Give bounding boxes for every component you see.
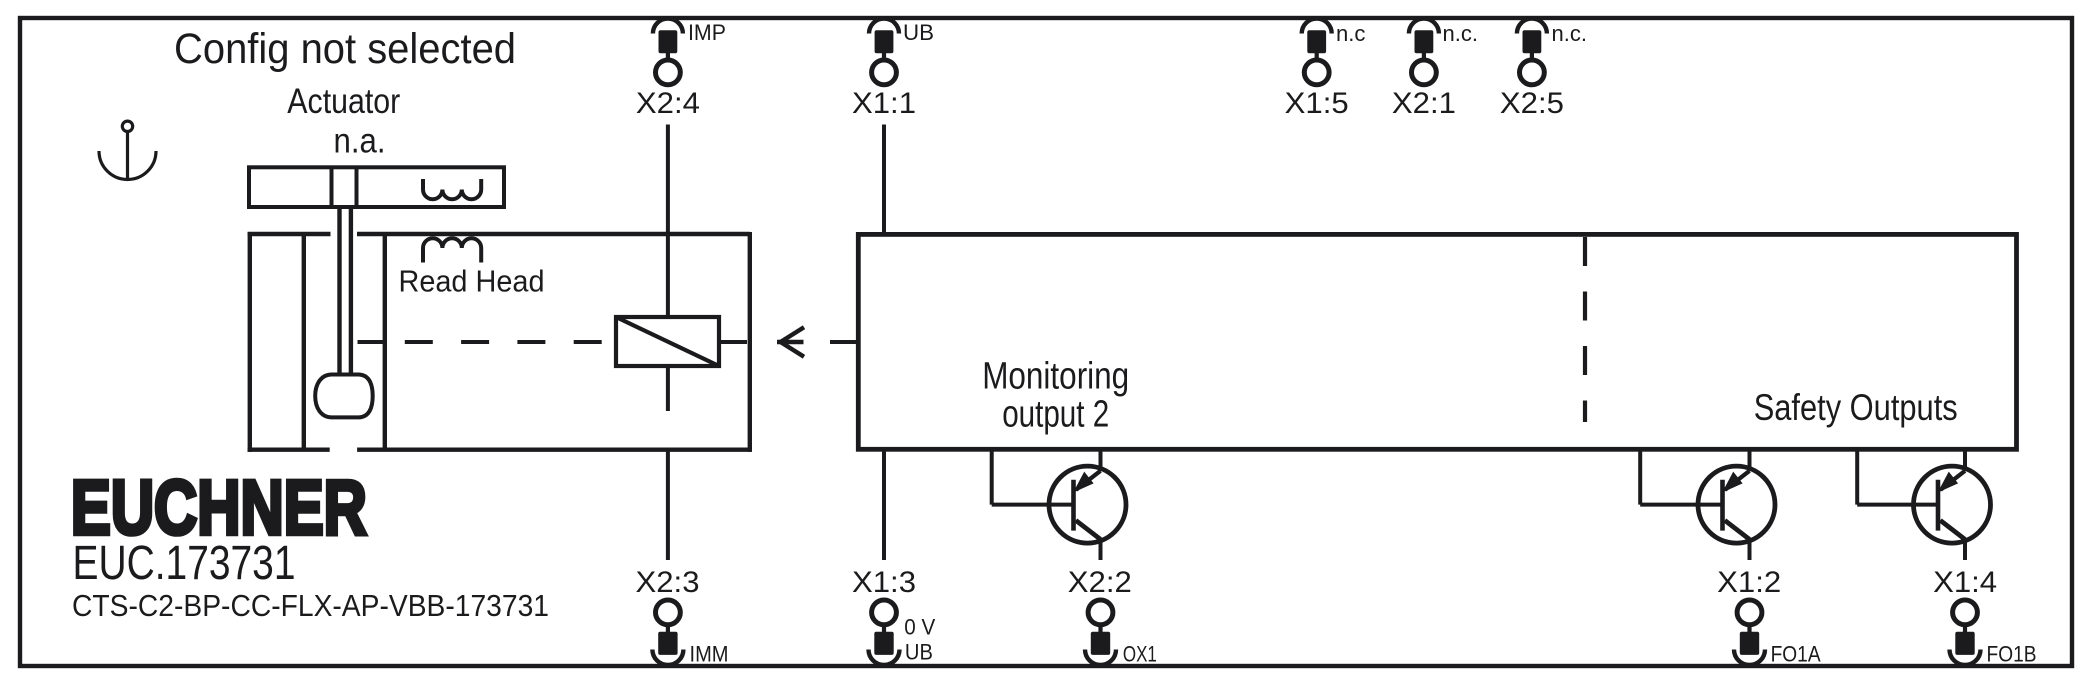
svg-text:X1:3: X1:3: [852, 566, 916, 599]
inductive coupler K1: [616, 317, 719, 366]
actuator tongue ball: [315, 375, 373, 418]
read head coil L2: [423, 238, 481, 262]
read head housing: [248, 232, 752, 452]
svg-text:Actuator: Actuator: [287, 82, 400, 121]
svg-text:FO1B: FO1B: [1987, 642, 2037, 667]
svg-text:FO1A: FO1A: [1771, 642, 1821, 667]
wire X1:1 to block: [882, 125, 886, 235]
terminal X1:5 (n.c): [1285, 19, 1366, 120]
svg-text:X2:1: X2:1: [1392, 87, 1456, 120]
svg-text:n.c: n.c: [1336, 21, 1366, 46]
svg-text:X1:1: X1:1: [852, 87, 916, 120]
transistor Q1 (monitoring output OX1): [992, 449, 1126, 543]
svg-text:OX1: OX1: [1123, 642, 1157, 667]
svg-text:X2:5: X2:5: [1500, 87, 1564, 120]
monitoring/safety block U1: [858, 234, 2016, 449]
svg-text:Safety Outputs: Safety Outputs: [1754, 387, 1958, 428]
svg-text:X1:4: X1:4: [1933, 566, 1997, 599]
svg-text:Config not selected: Config not selected: [174, 25, 516, 73]
svg-text:UB: UB: [905, 639, 933, 664]
terminal X2:5 (n.c.): [1500, 19, 1587, 120]
actuator coil L1: [423, 179, 481, 199]
svg-text:0 V: 0 V: [904, 615, 935, 640]
terminal X1:1 (UB): [852, 19, 934, 120]
svg-text:X2:4: X2:4: [636, 87, 700, 120]
wire Q1 emitter to X2:2: [1099, 539, 1103, 560]
terminal X1:2 (FO1A): [1717, 566, 1821, 666]
dashed divider: [1583, 237, 1587, 422]
wire Q3 emitter to X1:4: [1963, 539, 1967, 560]
wire Q2 emitter to X1:2: [1748, 539, 1752, 560]
wire block to X1:3: [882, 449, 886, 560]
svg-text:CTS-C2-BP-CC-FLX-AP-VBB-173731: CTS-C2-BP-CC-FLX-AP-VBB-173731: [72, 588, 549, 623]
actuator body: [249, 166, 504, 207]
svg-text:output 2: output 2: [1002, 394, 1109, 436]
svg-text:X1:5: X1:5: [1285, 87, 1349, 120]
signal arrow: [777, 327, 804, 356]
svg-text:n.c.: n.c.: [1552, 21, 1588, 46]
svg-text:X2:3: X2:3: [636, 566, 700, 599]
terminal X2:2 (OX1): [1068, 566, 1157, 666]
wire X2:4 to coupler: [666, 125, 670, 318]
terminal X2:3 (IMM): [636, 566, 729, 666]
wire coupler to read head edge: [719, 340, 747, 344]
transistor Q2 (safety output FO1A): [1640, 449, 1775, 543]
anchor symbol (fixed mounting): [99, 121, 156, 179]
svg-text:n.c.: n.c.: [1443, 21, 1479, 46]
dashed coupling line: [358, 340, 613, 344]
terminal X1:4 (FO1B): [1933, 566, 2036, 666]
svg-text:Monitoring: Monitoring: [982, 356, 1129, 398]
svg-text:X1:2: X1:2: [1717, 566, 1781, 599]
terminal X2:4 (IMP): [636, 19, 726, 120]
wire read head to X2:3: [666, 450, 670, 560]
svg-text:IMM: IMM: [690, 642, 729, 667]
svg-text:UB: UB: [903, 20, 934, 45]
terminal X1:3 (0V UB): [852, 566, 936, 665]
terminal X2:1 (n.c.): [1392, 19, 1478, 120]
svg-text:n.a.: n.a.: [334, 122, 386, 161]
svg-text:X2:2: X2:2: [1068, 566, 1132, 599]
transistor Q3 (safety output FO1B): [1857, 449, 1990, 543]
svg-text:IMP: IMP: [688, 20, 726, 45]
wire coupler stub down: [666, 366, 670, 411]
actuator tongue: [340, 207, 351, 375]
wire arrow to block: [830, 340, 857, 344]
svg-text:EUC.173731: EUC.173731: [73, 537, 296, 590]
svg-text:Read Head: Read Head: [399, 264, 545, 299]
